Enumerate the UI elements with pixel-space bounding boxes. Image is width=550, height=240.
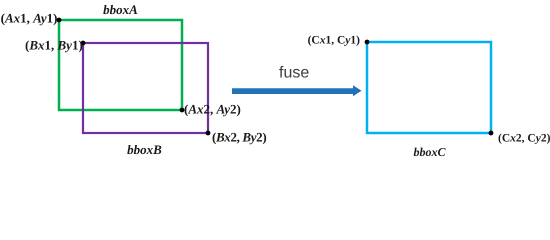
svg-text:(Bx2, By2): (Bx2, By2) — [212, 130, 266, 145]
bboxB rectangle (purple) — [83, 43, 208, 133]
bboxC rectangle (cyan) — [367, 42, 491, 133]
svg-text:fuse: fuse — [279, 65, 309, 82]
label bboxC — [413, 145, 446, 159]
label (Bx1, By1) — [25, 38, 83, 53]
svg-text:(Ax1, Ay1): (Ax1, Ay1) — [1, 11, 58, 26]
svg-text:bboxB: bboxB — [127, 142, 162, 157]
bboxA rectangle (green) — [59, 20, 182, 110]
corner dot C bottom-right — [489, 131, 494, 136]
label (Cx2, Cy2) — [498, 133, 550, 145]
svg-text:bboxC: bboxC — [413, 145, 446, 159]
corner dot A top-left — [57, 18, 62, 23]
svg-text:(Bx1, By1): (Bx1, By1) — [25, 38, 83, 53]
corner dot C top-left — [365, 40, 370, 45]
label (Cx1, Cy1) — [308, 35, 361, 47]
svg-text:(Ax2, Ay2): (Ax2, Ay2) — [184, 102, 241, 117]
svg-text:(Cx2, Cy2): (Cx2, Cy2) — [498, 133, 550, 145]
label (Bx2, By2) — [212, 130, 266, 145]
svg-text:(Cx1, Cy1): (Cx1, Cy1) — [308, 35, 361, 47]
corner dot B top-left — [81, 41, 86, 46]
label (Ax2, Ay2) — [184, 102, 241, 117]
label bboxA — [103, 2, 138, 17]
label (Ax1, Ay1) — [1, 11, 58, 26]
label fuse — [279, 65, 309, 82]
svg-text:bboxA: bboxA — [103, 2, 138, 17]
fuse arrow (blue) — [232, 85, 362, 96]
corner dot A bottom-right — [180, 108, 185, 113]
label bboxB — [127, 142, 162, 157]
corner dot B bottom-right — [206, 131, 211, 136]
